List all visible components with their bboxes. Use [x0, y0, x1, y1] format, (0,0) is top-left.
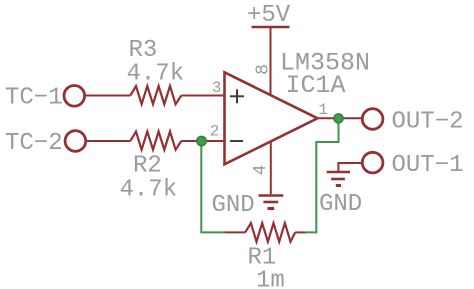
svg-text:TC−2: TC−2	[5, 130, 63, 157]
svg-text:4: 4	[251, 165, 271, 176]
resistor R1	[245, 223, 295, 242]
resistor R3	[130, 86, 181, 104]
net feedback wire left (pin2 down to R1)	[201, 141, 224, 232]
op-amp plus input mark	[230, 89, 244, 103]
svg-text:1: 1	[318, 101, 328, 119]
wire R2 to pin 2	[181, 140, 225, 142]
resistor R2	[130, 132, 181, 150]
svg-text:GND: GND	[212, 192, 255, 219]
svg-text:1m: 1m	[256, 268, 285, 289]
op-amp U1 triangle	[225, 72, 318, 164]
svg-text:4.7k: 4.7k	[127, 61, 185, 88]
svg-text:OUT−2: OUT−2	[392, 109, 464, 136]
pad OUT-2	[362, 109, 383, 130]
svg-text:R2: R2	[133, 153, 162, 180]
op-amp minus input mark	[230, 140, 243, 142]
svg-text:4.7k: 4.7k	[120, 177, 178, 204]
pad OUT-1	[362, 152, 383, 173]
wire pin 4 to ground	[270, 142, 272, 195]
pad TC-2	[65, 131, 86, 152]
junction node at output	[334, 114, 343, 123]
wire R3 to pin 3	[181, 95, 225, 97]
svg-text:8: 8	[254, 64, 274, 75]
+5V supply symbol	[252, 26, 290, 29]
wire pin8 to +5V	[270, 27, 272, 96]
pad TC-1	[64, 86, 85, 107]
wire R1 left lead	[224, 231, 245, 233]
svg-text:IC1A: IC1A	[286, 71, 346, 100]
wire pin 1 to OUT-2 pad	[318, 117, 363, 119]
wire OUT-1 to ground	[338, 163, 361, 172]
svg-text:+5V: +5V	[247, 2, 291, 29]
junction node at pin 2	[197, 136, 206, 145]
net feedback wire right (R1 up to output)	[306, 118, 339, 232]
ground symbol at OUT-1	[327, 172, 350, 186]
svg-text:OUT−1: OUT−1	[392, 152, 464, 179]
svg-text:GND: GND	[319, 191, 362, 218]
wire TC-1 to R3	[86, 95, 131, 97]
svg-text:2: 2	[210, 123, 220, 141]
svg-text:TC−1: TC−1	[5, 85, 63, 112]
wire R1 right lead	[295, 231, 305, 233]
wire TC-2 to R2	[87, 140, 130, 142]
svg-text:3: 3	[212, 79, 222, 97]
ground symbol at pin 4	[259, 196, 284, 209]
